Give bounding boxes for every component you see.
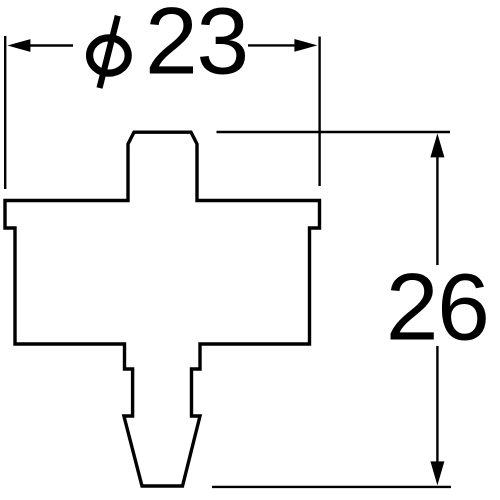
svg-text:23: 23 bbox=[145, 0, 248, 95]
svg-text:26: 26 bbox=[386, 255, 489, 361]
